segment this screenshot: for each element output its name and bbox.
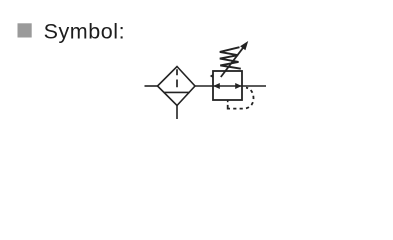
wire inlet (145, 85, 158, 87)
pilot feedback line corner dash (228, 105, 230, 109)
filter F1 sump chord (164, 91, 190, 93)
filter F1 drain stem (176, 106, 178, 120)
wire outlet (242, 85, 266, 87)
regulator R1 drain stub (227, 100, 229, 103)
regulator R1 adjustment arrowhead (240, 41, 248, 50)
filter F1 element (dashed) (176, 69, 178, 87)
regulator R1 flow path (213, 85, 242, 87)
pilot feedback line (dashed) (233, 88, 253, 109)
wire filter-to-regulator (195, 85, 213, 87)
regulator R1 body (213, 71, 242, 100)
regulator R1 relief nub (210, 74, 213, 78)
regulator R1 right flow arrowhead (235, 83, 242, 89)
svg-text:Symbol:: Symbol: (44, 20, 126, 44)
filter F1 body (diamond) (158, 67, 196, 106)
regulator R1 left flow arrowhead (213, 83, 220, 89)
regulator R1 spring (220, 47, 241, 68)
bullet square (18, 23, 32, 37)
regulator R1 adjustment arrow shaft (221, 46, 245, 77)
